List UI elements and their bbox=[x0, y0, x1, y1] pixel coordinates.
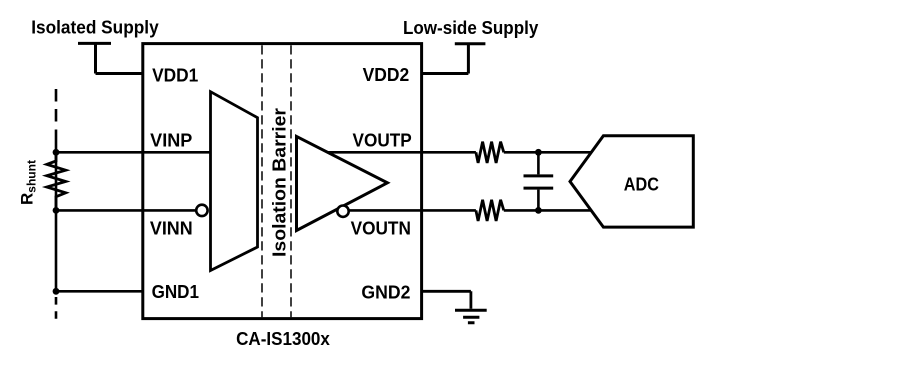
svg-text:VDD1: VDD1 bbox=[152, 65, 198, 85]
svg-text:Isolated Supply: Isolated Supply bbox=[31, 17, 159, 38]
svg-text:VINP: VINP bbox=[150, 130, 192, 150]
svg-text:VINN: VINN bbox=[150, 219, 193, 239]
svg-text:VDD2: VDD2 bbox=[363, 65, 410, 85]
svg-text:GND1: GND1 bbox=[152, 282, 199, 302]
svg-text:VOUTN: VOUTN bbox=[351, 219, 411, 239]
svg-text:ADC: ADC bbox=[624, 173, 659, 194]
svg-text:GND2: GND2 bbox=[361, 283, 410, 303]
svg-text:CA-IS1300x: CA-IS1300x bbox=[236, 328, 330, 349]
svg-text:VOUTP: VOUTP bbox=[353, 130, 412, 150]
svg-text:Isolation Barrier: Isolation Barrier bbox=[269, 108, 290, 257]
svg-text:Low-side Supply: Low-side Supply bbox=[403, 17, 539, 38]
